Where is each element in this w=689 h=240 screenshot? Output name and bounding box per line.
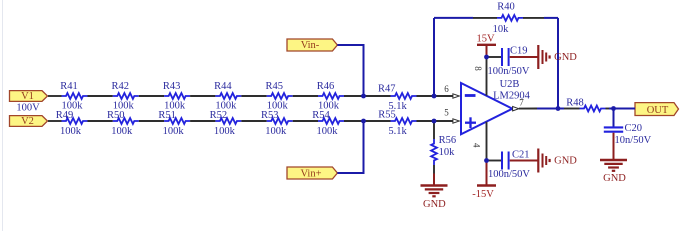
resistor R55 (391, 118, 417, 124)
svg-text:GND: GND (554, 156, 577, 167)
wire R45-R46 (293, 95, 318, 97)
svg-text:6: 6 (444, 84, 449, 94)
resistor R49 (62, 118, 88, 124)
svg-text:R46: R46 (317, 81, 335, 92)
svg-text:R50: R50 (107, 110, 125, 121)
wire R43-R44 (190, 95, 215, 97)
resistor R51 (164, 118, 190, 124)
svg-text:100V: 100V (16, 102, 40, 113)
wire pin4 node to C21 (487, 160, 502, 162)
svg-text:R42: R42 (112, 81, 130, 92)
svg-text:R52: R52 (210, 110, 228, 121)
wire R48 to C20 node (609, 108, 635, 110)
port Vin- (287, 39, 337, 51)
svg-text:10n/50V: 10n/50V (615, 135, 652, 146)
node D (432, 119, 437, 124)
wire node to pin5 (434, 120, 453, 122)
node F (484, 158, 489, 163)
node E (484, 55, 489, 60)
wire output pin7 to node (537, 108, 558, 110)
svg-text:GND: GND (423, 199, 446, 210)
svg-text:R48: R48 (566, 98, 584, 109)
sheet edge line (2, 0, 3, 231)
svg-text:R47: R47 (378, 84, 396, 95)
wire feedback right vertical (557, 18, 559, 109)
svg-text:100k: 100k (60, 126, 82, 137)
resistor R45 (267, 93, 293, 99)
wire R41-R42 (88, 95, 113, 97)
wire R50-R51 (139, 120, 164, 122)
node A (361, 94, 366, 99)
power port -15V (486, 161, 488, 186)
wire Vin- to top row (337, 45, 363, 96)
port Vin+ (287, 167, 337, 179)
svg-text:100n/50V: 100n/50V (488, 66, 530, 77)
svg-text:V2: V2 (21, 116, 34, 127)
svg-text:OUT: OUT (647, 105, 669, 116)
svg-text:R51: R51 (158, 110, 176, 121)
wire C19 to gnd (510, 56, 539, 58)
svg-text:Vin-: Vin- (301, 40, 320, 51)
svg-text:100k: 100k (163, 126, 185, 137)
wire R51-R52 (190, 120, 215, 122)
svg-text:R40: R40 (497, 2, 515, 13)
resistor R47 (391, 93, 417, 99)
resistor R53 (267, 118, 293, 124)
node C (361, 119, 366, 124)
wire feedback left vertical (433, 18, 435, 96)
svg-text:U2B: U2B (500, 79, 520, 90)
svg-text:R41: R41 (60, 81, 78, 92)
port OUT (635, 103, 679, 116)
svg-text:C20: C20 (625, 123, 643, 134)
svg-text:100k: 100k (317, 126, 339, 137)
pin 5 arrow (453, 119, 459, 123)
wire node to pin6 (434, 95, 453, 97)
wire 15V node to C19 (487, 56, 502, 58)
op-amp U2B LM2904 (461, 83, 512, 134)
svg-text:R56: R56 (439, 135, 457, 146)
wire node to R48 (558, 108, 564, 110)
wire R52-R53 (241, 120, 266, 122)
wire V2 to R49 (48, 120, 62, 122)
svg-text:GND: GND (603, 173, 626, 184)
svg-text:LM2904: LM2904 (493, 91, 531, 102)
ground right of C21 (537, 149, 539, 173)
svg-text:C19: C19 (510, 46, 528, 57)
capacitor C19 (501, 48, 503, 66)
svg-text:Vin+: Vin+ (300, 168, 321, 179)
pin 4 wire (486, 122, 488, 161)
resistor R46 (318, 93, 344, 99)
pin 7 arrow (513, 107, 519, 111)
ground under C20 (600, 159, 627, 161)
wire Vin+ to bottom row (337, 121, 363, 173)
svg-text:-15V: -15V (472, 189, 494, 200)
svg-text:R55: R55 (378, 109, 396, 120)
svg-text:100k: 100k (265, 126, 287, 137)
port V1 (10, 91, 48, 102)
svg-text:GND: GND (554, 52, 577, 63)
resistor R40 (473, 17, 497, 19)
wire R42-R43 (139, 95, 164, 97)
resistor R42 (113, 93, 139, 99)
resistor R43 (164, 93, 190, 99)
wire C21 to gnd (510, 160, 539, 162)
svg-text:R54: R54 (312, 110, 330, 121)
wire node to R55 (364, 120, 391, 122)
minus input mark (465, 94, 476, 97)
wire V1 to R41 (48, 95, 62, 97)
resistor R41 (62, 93, 88, 99)
wire C20 stem (613, 109, 615, 127)
svg-text:10k: 10k (439, 147, 456, 158)
svg-text:10k: 10k (493, 24, 510, 35)
wire feedback top right (544, 17, 558, 19)
svg-text:C21: C21 (512, 150, 530, 161)
wire R55 to node (417, 120, 435, 122)
wire R53-R54 (293, 120, 318, 122)
ground under R56 (421, 184, 448, 186)
svg-text:5.1k: 5.1k (388, 126, 407, 137)
ground right of C19 (537, 45, 539, 69)
svg-text:8: 8 (473, 66, 483, 71)
wire R46 to node (344, 95, 364, 97)
node H (611, 106, 616, 111)
svg-text:R45: R45 (265, 81, 283, 92)
svg-text:R49: R49 (56, 110, 74, 121)
svg-text:R44: R44 (214, 81, 232, 92)
resistor R52 (215, 118, 241, 124)
port V2 (10, 116, 48, 127)
resistor R44 (215, 93, 241, 99)
pin 7 wire (519, 108, 537, 110)
pin 6 arrow (453, 94, 459, 98)
wire feedback top left (434, 17, 473, 19)
svg-text:15V: 15V (477, 34, 496, 45)
svg-text:100n/50V: 100n/50V (488, 169, 530, 180)
wire R54 to node (344, 120, 364, 122)
wire C20 to gnd (613, 133, 615, 160)
capacitor C20 (604, 126, 623, 128)
resistor R54 (318, 118, 344, 124)
wire R44-R45 (241, 95, 266, 97)
wire R47 to node (417, 95, 435, 97)
capacitor C21 (501, 152, 503, 170)
svg-text:100k: 100k (111, 126, 133, 137)
svg-text:100k: 100k (214, 126, 236, 137)
svg-text:R43: R43 (163, 81, 181, 92)
node G (556, 106, 561, 111)
resistor R48 (564, 108, 580, 110)
node B (432, 94, 437, 99)
wire R56 to gnd (433, 174, 435, 186)
plus input mark (465, 122, 476, 124)
resistor R56 (433, 121, 435, 139)
svg-text:4: 4 (472, 143, 482, 148)
wire node to R47 (364, 95, 391, 97)
pin 8 wire (486, 57, 488, 96)
svg-text:5: 5 (444, 108, 449, 118)
wire R49-R50 (88, 120, 113, 122)
resistor R50 (113, 118, 139, 124)
svg-text:V1: V1 (21, 91, 34, 102)
svg-text:R53: R53 (261, 110, 279, 121)
